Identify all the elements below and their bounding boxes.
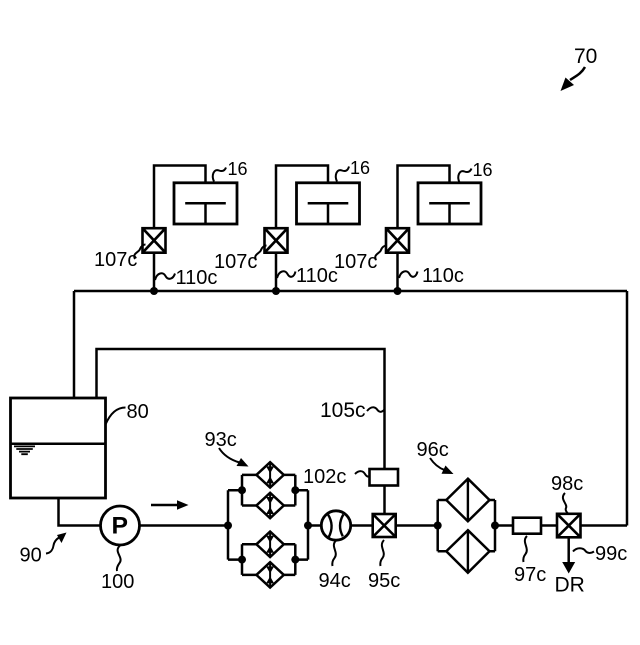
- svg-text:16: 16: [473, 160, 493, 180]
- label 99c: [573, 543, 627, 565]
- wire unit 3 valve to bus: [396, 253, 399, 291]
- junction dot 93c main left: [224, 522, 232, 530]
- svg-text:95c: 95c: [368, 570, 400, 592]
- actuator box 16 (unit 3): [418, 183, 481, 224]
- svg-text:93c: 93c: [205, 429, 237, 451]
- valve 95c: [373, 514, 396, 537]
- junction dot unit 1 on bus: [150, 287, 158, 295]
- wire 98c to right riser: [581, 524, 628, 527]
- svg-text:107c: 107c: [94, 249, 137, 271]
- label 100: [101, 546, 134, 594]
- filter diamond 93c bottom group lower: [256, 562, 283, 587]
- label 102c: [303, 466, 370, 488]
- valve 107c (unit 2): [265, 228, 288, 253]
- orifice 97c: [513, 518, 541, 534]
- label 95c: [368, 540, 400, 592]
- label 16 (unit 2): [336, 158, 370, 182]
- label 110c (unit 3): [399, 265, 464, 287]
- label 16 (unit 3): [458, 160, 492, 183]
- wire unit 1 supply loop: [154, 166, 206, 229]
- svg-text:98c: 98c: [551, 473, 583, 495]
- label 97c: [514, 536, 546, 586]
- wire unit 2 supply loop: [276, 166, 328, 229]
- label 70: [561, 45, 598, 91]
- svg-text:97c: 97c: [514, 564, 546, 586]
- junction dot 96c left: [434, 522, 442, 530]
- wire 93c top group inner loop: [242, 475, 295, 506]
- svg-text:94c: 94c: [319, 570, 351, 592]
- wire unit 2 valve to bus: [275, 253, 278, 291]
- wire unit 3 supply loop: [398, 166, 450, 229]
- valve 107c (unit 1): [143, 228, 166, 253]
- pump 100: [101, 506, 140, 545]
- wire pump to 93c: [140, 524, 229, 527]
- junction dot 93c top-left: [238, 486, 246, 494]
- label 110c (unit 1): [155, 267, 217, 289]
- filter diamond 93c top group upper: [256, 462, 283, 487]
- svg-text:80: 80: [127, 401, 149, 423]
- coupling 94c: [321, 511, 350, 540]
- wire 96c to 97c: [495, 524, 513, 527]
- label 110c (unit 2): [277, 265, 338, 287]
- svg-text:99c: 99c: [595, 543, 627, 565]
- svg-text:107c: 107c: [334, 251, 377, 273]
- junction dot 93c top-right: [291, 486, 299, 494]
- filter bank 93c outer loop: [228, 490, 308, 559]
- label 94c: [319, 541, 351, 593]
- svg-text:P: P: [112, 513, 129, 540]
- orifice 102c: [370, 469, 399, 486]
- label 96c: [417, 439, 454, 474]
- valve 98c: [557, 514, 581, 538]
- label 98c: [551, 473, 583, 514]
- wire bus left riser to tank: [73, 291, 76, 398]
- wire 102c to 95c: [383, 486, 386, 515]
- valve 107c (unit 3): [386, 228, 409, 253]
- label 80: [106, 401, 149, 425]
- svg-text:16: 16: [350, 158, 370, 178]
- svg-text:107c: 107c: [214, 251, 257, 273]
- label 105c: [320, 399, 385, 422]
- wire 93c bottom group inner loop: [242, 544, 295, 575]
- svg-text:102c: 102c: [303, 466, 346, 488]
- tank 80: [11, 398, 106, 498]
- svg-text:90: 90: [20, 545, 42, 567]
- svg-text:110c: 110c: [296, 265, 338, 287]
- junction dot unit 2 on bus: [272, 287, 280, 295]
- wire tank outlet to pump: [59, 498, 101, 526]
- wire return line 105c horizontal: [97, 349, 385, 469]
- svg-text:110c: 110c: [176, 267, 218, 289]
- wire right riser (98c output up to bus): [626, 291, 629, 526]
- heat exchanger 96c loop: [438, 500, 495, 551]
- filter diamond 93c bottom group upper: [256, 532, 283, 557]
- svg-text:70: 70: [574, 45, 597, 68]
- junction dot 96c right: [491, 522, 499, 530]
- junction dot 93c bottom-right: [291, 556, 299, 564]
- wire unit 1 valve to bus: [153, 253, 156, 291]
- wire 94c to 95c: [351, 524, 373, 527]
- wire 95c to 96c: [396, 524, 438, 527]
- actuator box 16 (unit 2): [297, 183, 360, 224]
- label 90: [20, 533, 67, 567]
- exchanger diamond 96c lower: [446, 530, 489, 573]
- label 107c (unit 2): [214, 246, 267, 274]
- label 93c: [205, 429, 249, 467]
- junction dot 93c main right: [304, 522, 312, 530]
- drain arrow 99c: [562, 537, 575, 573]
- label 107c (unit 3): [334, 246, 387, 274]
- svg-text:16: 16: [228, 159, 248, 179]
- wire 93c to 94c: [308, 524, 321, 527]
- junction dot unit 3 on bus: [394, 287, 402, 295]
- exchanger diamond 96c upper: [446, 479, 489, 522]
- svg-text:DR: DR: [555, 574, 585, 597]
- actuator box 16 (unit 1): [174, 183, 237, 224]
- label 16 (unit 1): [213, 159, 248, 182]
- svg-text:110c: 110c: [422, 265, 464, 287]
- svg-text:105c: 105c: [320, 399, 366, 422]
- label 107c (unit 1): [94, 245, 146, 272]
- wire 97c to 98c: [541, 524, 557, 527]
- flow direction arrow: [151, 500, 189, 509]
- svg-text:96c: 96c: [417, 439, 449, 461]
- filter diamond 93c top group lower: [256, 493, 283, 518]
- junction dot 93c bottom-left: [238, 556, 246, 564]
- bus line 110c: [74, 290, 627, 293]
- svg-text:100: 100: [101, 571, 134, 593]
